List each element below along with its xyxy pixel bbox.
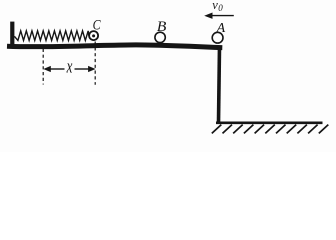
svg-text:C: C (93, 17, 101, 33)
tabletop surface (7, 45, 222, 48)
x dimension arrow left segment (50, 68, 65, 70)
ball C center dot (92, 34, 95, 37)
svg-text:B: B (157, 18, 167, 35)
spring (14, 31, 89, 41)
v0 arrow (211, 15, 234, 17)
x dimension arrow right segment (75, 68, 90, 70)
left wall (10, 22, 14, 48)
ground line (216, 122, 323, 125)
ball A (212, 32, 223, 43)
ball B (155, 32, 165, 42)
dashed line left (42, 49, 44, 85)
right wall edge (219, 46, 220, 122)
svg-text:v0: v0 (212, 0, 223, 13)
ground hatching (212, 125, 328, 134)
svg-text:A: A (216, 21, 226, 36)
ball C (89, 31, 98, 40)
svg-text:x: x (66, 57, 73, 77)
dashed line right (94, 42, 96, 85)
